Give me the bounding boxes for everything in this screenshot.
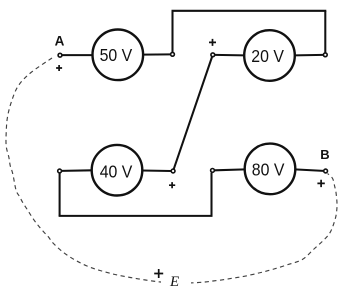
wire T1 riser	[171, 11, 173, 52]
wire right dropper	[324, 11, 326, 53]
wire 80V to B	[295, 169, 323, 171]
wire T2 to 20V	[215, 54, 245, 57]
svg-text:E: E	[169, 274, 179, 290]
wire 20V to T3	[294, 54, 323, 57]
svg-text:80 V: 80 V	[252, 160, 285, 180]
node T2	[211, 53, 215, 57]
node T3	[323, 53, 327, 57]
source 80V	[245, 144, 296, 195]
svg-text:20 V: 20 V	[251, 46, 284, 66]
node T1	[171, 52, 175, 56]
svg-text:A: A	[55, 33, 65, 48]
svg-text:40 V: 40 V	[100, 161, 133, 181]
source 40V	[92, 145, 143, 196]
source 50V	[93, 30, 144, 81]
node T4	[58, 169, 62, 173]
plus at T5	[169, 182, 175, 188]
terminal B	[324, 169, 328, 173]
dashed loop E (A to B)	[6, 58, 337, 283]
wire T6 to 80V	[215, 168, 246, 171]
source 20V	[244, 30, 295, 81]
terminal A	[58, 53, 62, 57]
wire T4 to 40V	[62, 169, 92, 172]
plus at B	[317, 180, 324, 187]
gap mask for E label	[161, 276, 191, 290]
svg-text:50 V: 50 V	[100, 45, 133, 65]
wire T4 dropper	[59, 173, 61, 216]
wire T6 dropper	[210, 173, 212, 216]
wire top rail	[172, 10, 327, 12]
plus at A	[56, 65, 62, 71]
wire bottom rail	[59, 215, 213, 217]
node T6	[211, 169, 215, 173]
wire diagonal T2 to T5	[174, 57, 212, 169]
wire A to 50V	[62, 54, 93, 56]
node T5	[171, 169, 175, 173]
plus at E	[154, 269, 163, 278]
plus at T2	[209, 39, 216, 46]
wire 50V to node T1	[143, 53, 171, 55]
wire 40V to T5	[142, 169, 171, 172]
svg-text:B: B	[320, 147, 329, 162]
